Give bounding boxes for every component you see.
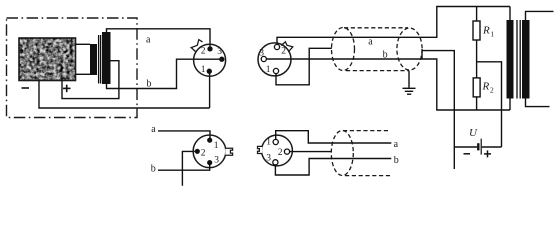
svg-text:1: 1 [491,30,495,39]
svg-text:2: 2 [281,46,286,56]
svg-text:3: 3 [217,47,222,57]
svg-text:2: 2 [490,86,494,95]
svg-text:R: R [482,81,490,93]
svg-text:R: R [482,25,490,37]
svg-text:1: 1 [201,65,206,75]
svg-text:2: 2 [201,149,206,159]
svg-text:U: U [469,127,478,139]
svg-text:a: a [394,139,399,150]
svg-text:a: a [146,35,151,46]
svg-text:a: a [151,124,156,135]
svg-text:1: 1 [266,138,271,148]
svg-text:2: 2 [201,47,206,57]
svg-text:3: 3 [214,156,219,166]
svg-text:b: b [383,50,388,61]
svg-text:b: b [151,163,156,174]
svg-text:a: a [368,36,373,47]
svg-text:b: b [394,155,399,166]
svg-text:b: b [147,78,152,89]
svg-text:3: 3 [259,48,264,58]
svg-text:1: 1 [266,65,271,75]
svg-text:1: 1 [214,141,219,151]
svg-text:3: 3 [266,154,271,164]
svg-text:2: 2 [278,148,283,158]
